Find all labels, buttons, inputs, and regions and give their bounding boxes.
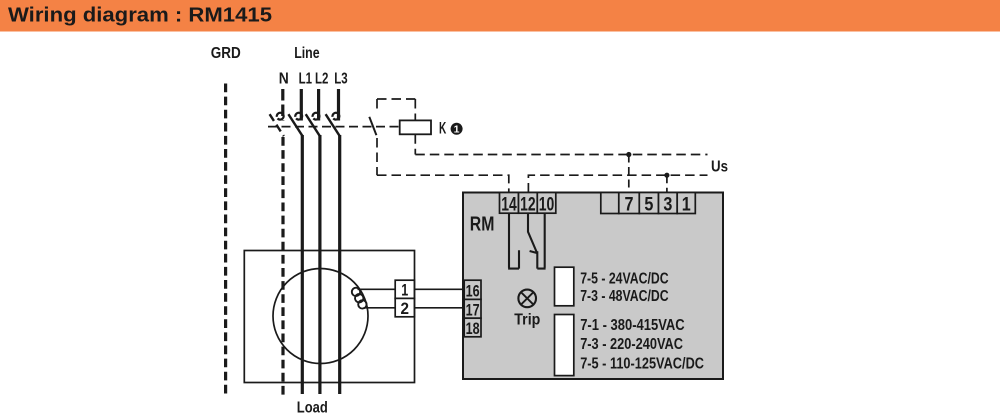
svg-text:17: 17 xyxy=(466,300,480,319)
svg-text:Load: Load xyxy=(297,399,328,416)
svg-text:7-3 - 220-240VAC: 7-3 - 220-240VAC xyxy=(580,336,683,353)
wire L1 lower xyxy=(301,135,304,394)
breaker pole N blade (dashed) xyxy=(270,114,284,136)
svg-text:14: 14 xyxy=(501,194,517,215)
wire N upper (dashed) xyxy=(281,89,284,121)
RM terminal 18 box xyxy=(464,318,481,337)
wire L3 upper xyxy=(337,89,340,121)
svg-text:L2: L2 xyxy=(315,71,328,88)
breaker pole L3 blade xyxy=(326,114,340,136)
footnote mark 1 (black circle) xyxy=(451,123,463,135)
RM terminal 16 box xyxy=(464,280,481,299)
K circuit dashed box top edge xyxy=(377,98,415,100)
RM terminal 17 box xyxy=(464,299,481,318)
wire CT 1 to RM 16 xyxy=(414,288,464,290)
wire N lower (dashed) xyxy=(281,137,284,396)
svg-text:1: 1 xyxy=(401,280,408,299)
breaker pole L1 blade xyxy=(288,114,302,136)
K circuit dashed box right edge xyxy=(414,99,416,155)
breaker pole L1 hook xyxy=(295,113,302,120)
auxiliary contact blade xyxy=(369,117,376,135)
svg-text:Trip: Trip xyxy=(514,312,540,329)
wire L2 upper xyxy=(317,89,320,121)
svg-text:1: 1 xyxy=(682,194,691,215)
voltage option box upper xyxy=(555,267,574,306)
svg-text:7-1 - 380-415VAC: 7-1 - 380-415VAC xyxy=(580,317,685,334)
ground wire GRD (dashed) xyxy=(224,84,227,397)
junction on Us lower wire xyxy=(664,173,669,178)
svg-text:Line: Line xyxy=(294,45,319,62)
relay output contact: common from 12 with blade xyxy=(528,213,537,252)
supply wire Us lower right segment from terminal 12 (dashed) xyxy=(528,175,707,192)
breaker pole L3 hook xyxy=(332,113,339,120)
svg-text:7: 7 xyxy=(625,194,634,215)
svg-text:3: 3 xyxy=(663,194,672,215)
supply wire Us upper (dashed) xyxy=(415,154,707,156)
svg-text:10: 10 xyxy=(539,194,555,215)
wire winding to terminal 1 xyxy=(358,288,396,290)
svg-text:L3: L3 xyxy=(334,71,347,88)
svg-text:2: 2 xyxy=(401,299,410,318)
coil K1 box xyxy=(400,120,431,134)
relay RM body xyxy=(463,193,723,380)
terminal block 14 12 10 xyxy=(500,193,556,214)
breaker pole L2 hook xyxy=(313,113,320,120)
wire L2 lower xyxy=(318,135,321,394)
svg-text:5: 5 xyxy=(644,194,653,215)
svg-text:7-5 - 110-125VAC/DC: 7-5 - 110-125VAC/DC xyxy=(580,356,704,373)
svg-text:K: K xyxy=(439,118,447,137)
wire L3 lower xyxy=(338,135,341,394)
breaker pole N hook xyxy=(277,113,284,120)
relay output contact: fixed contact from 14 xyxy=(508,213,519,268)
breaker linkage wire (dashed) xyxy=(268,126,399,128)
wire L1 upper xyxy=(300,89,303,121)
voltage option box lower xyxy=(555,315,574,376)
trip indicator circle xyxy=(518,290,536,308)
junction on Us upper wire xyxy=(626,152,631,157)
svg-text:1: 1 xyxy=(454,123,460,135)
svg-text:L1: L1 xyxy=(299,71,312,88)
CT terminal 2 box xyxy=(395,298,414,316)
svg-text:18: 18 xyxy=(466,319,480,338)
relay output contact: fixed contact from 10 xyxy=(537,213,545,268)
secondary winding loops xyxy=(352,288,360,296)
wire junction to terminal 7 (dashed) xyxy=(628,155,630,193)
wire junction to terminal 3 (dashed) xyxy=(666,175,668,192)
svg-text:N: N xyxy=(279,71,289,88)
svg-text:Wiring diagram : RM1415: Wiring diagram : RM1415 xyxy=(8,4,272,27)
CT terminal 1 box xyxy=(395,280,414,298)
svg-text:RM: RM xyxy=(470,212,495,235)
header bar xyxy=(0,0,1000,32)
svg-text:Us: Us xyxy=(711,158,728,175)
terminal block 7 5 3 1 xyxy=(601,193,696,214)
current transformer core (circle) xyxy=(273,269,368,364)
blade tip tick xyxy=(530,251,538,253)
svg-text:7-3 - 48VAC/DC: 7-3 - 48VAC/DC xyxy=(580,288,668,305)
svg-text:GRD: GRD xyxy=(211,45,241,62)
svg-text:12: 12 xyxy=(520,194,536,215)
wire CT 2 to RM 17 xyxy=(414,307,464,309)
breaker pole L2 blade xyxy=(306,114,320,136)
K circuit dashed box left edge xyxy=(376,99,378,175)
current transformer body xyxy=(244,251,414,383)
wire winding to terminal 2 xyxy=(364,307,396,309)
supply wire Us lower left segment to terminal 14 (dashed) xyxy=(377,175,509,192)
svg-text:16: 16 xyxy=(466,282,480,301)
svg-text:7-5 - 24VAC/DC: 7-5 - 24VAC/DC xyxy=(580,270,668,287)
